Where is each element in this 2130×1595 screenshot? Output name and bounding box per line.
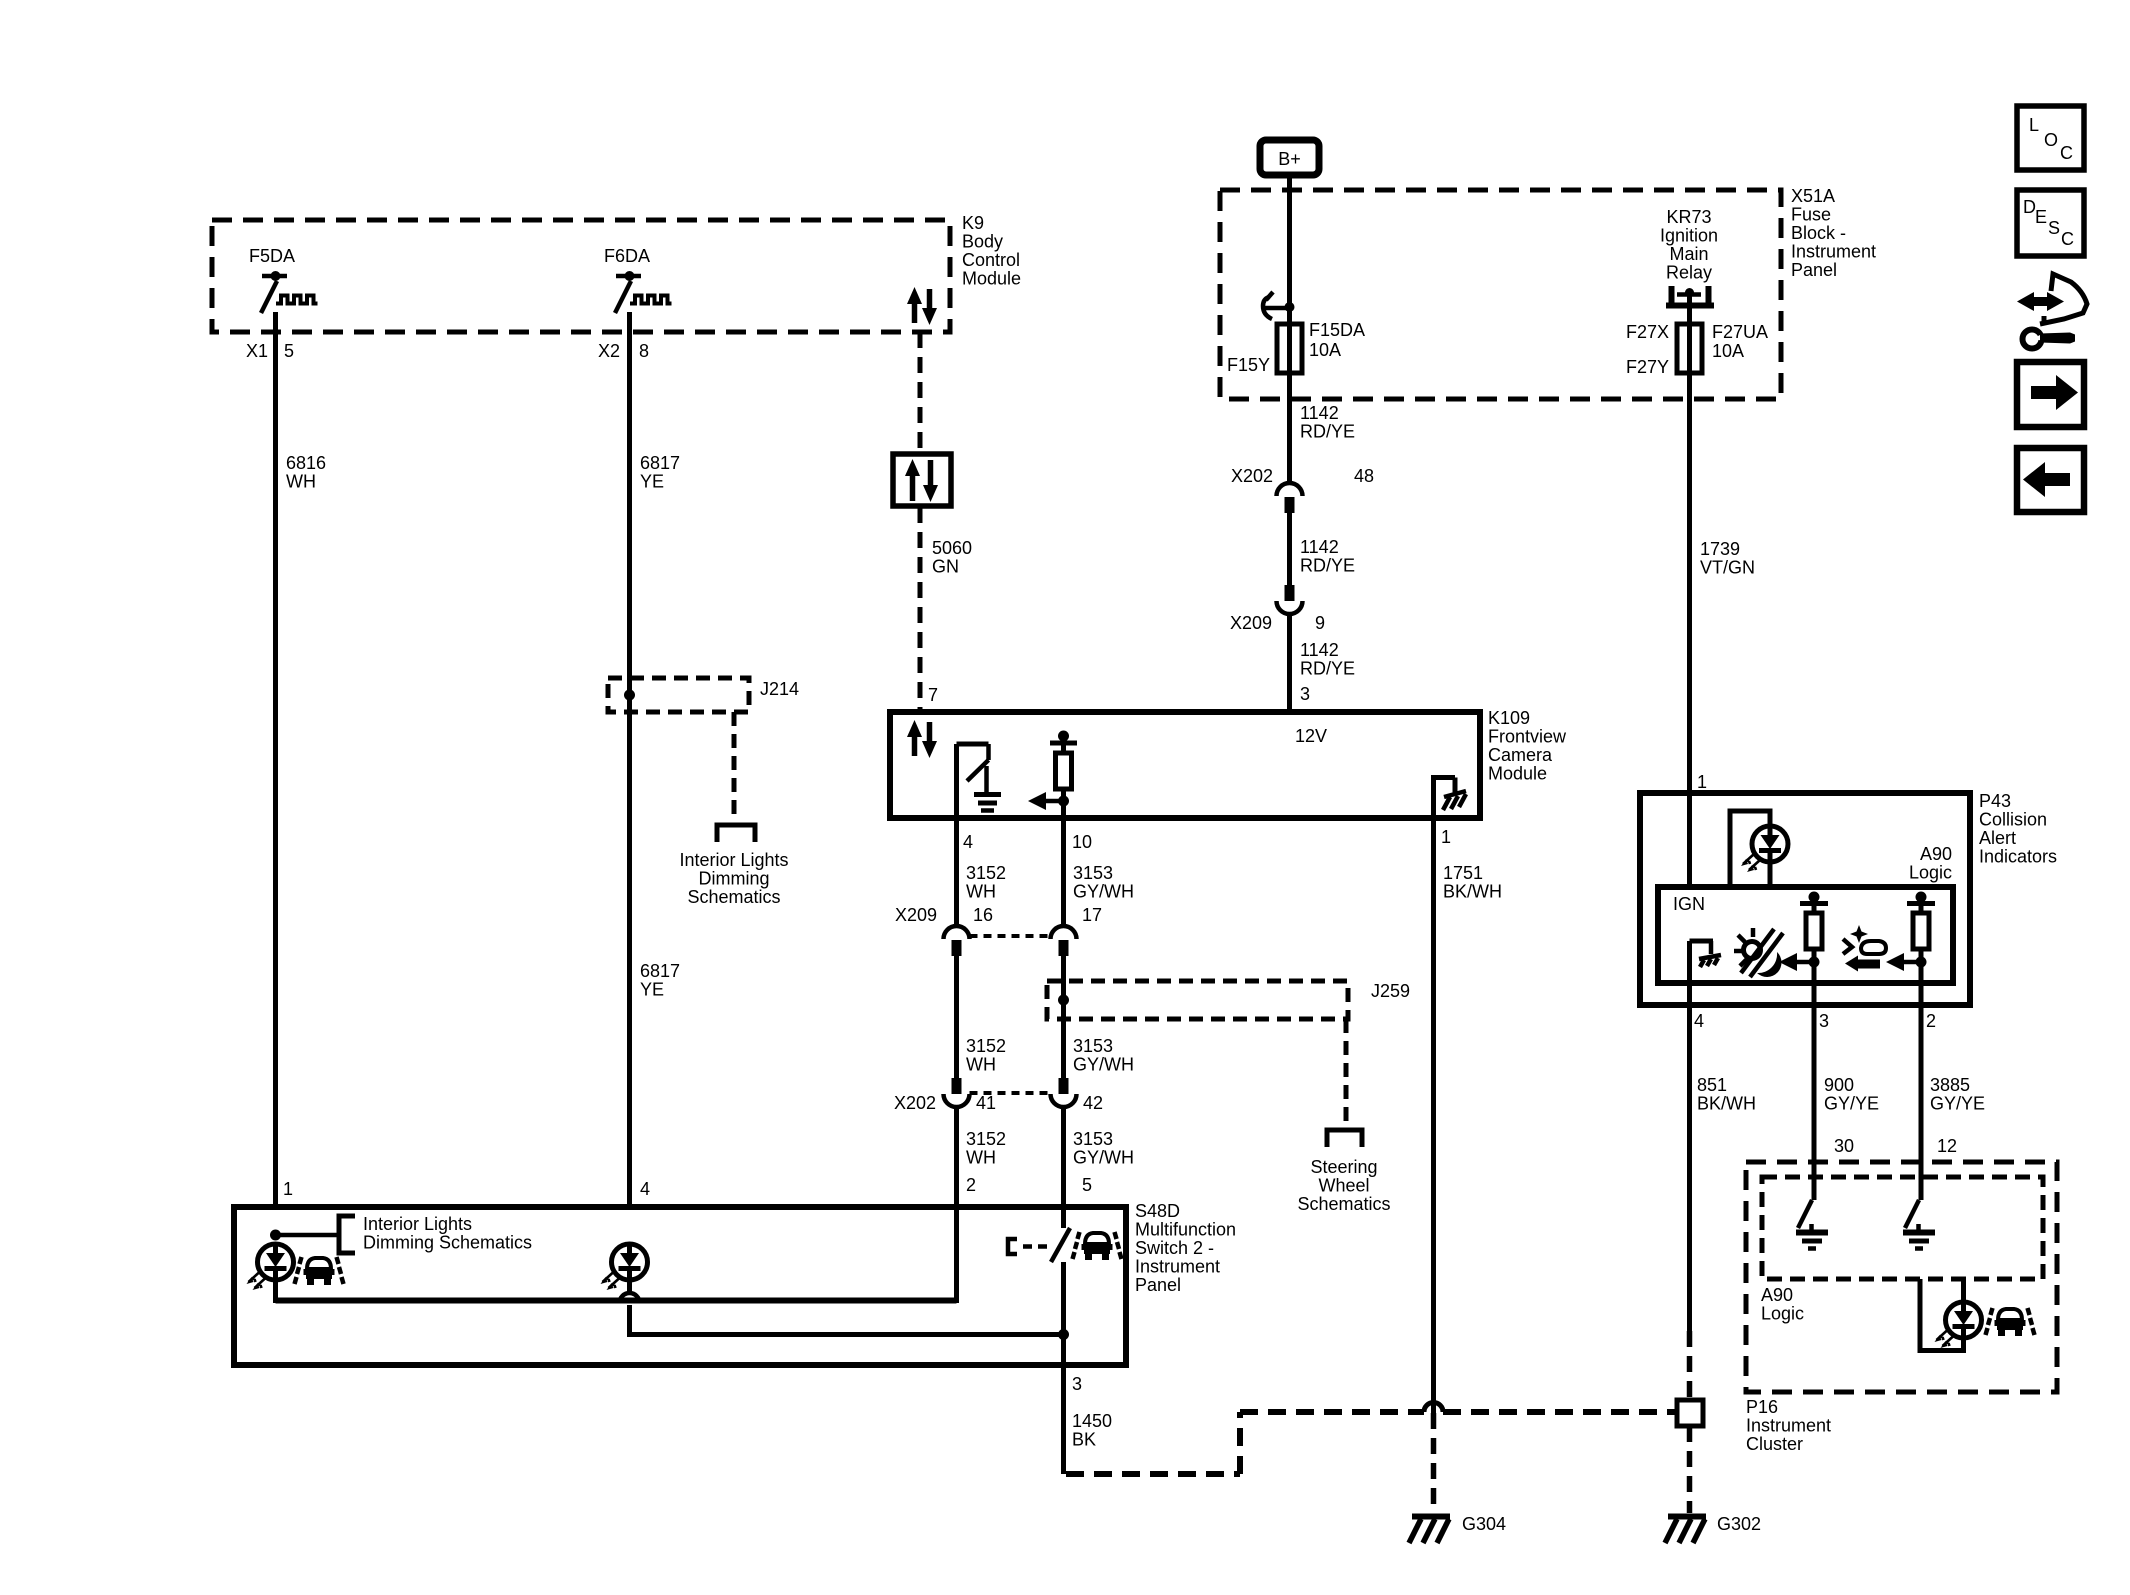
label X202 41 42 (894, 1093, 1103, 1113)
svg-text:RD/YE: RD/YE (1300, 422, 1355, 442)
svg-text:30: 30 (1834, 1136, 1854, 1156)
label A90 Logic (1909, 844, 1952, 883)
svg-text:1739: 1739 (1700, 539, 1740, 559)
label Steering Wheel Schematics (1297, 1157, 1390, 1214)
svg-text:YE: YE (640, 980, 664, 1000)
dashed branch from J259 (1344, 1019, 1349, 1127)
svg-text:1: 1 (1697, 772, 1707, 792)
back arrow button (2017, 448, 2084, 512)
wire 1739 VT/GN (F27 fuse to P43 pin1) (1687, 373, 1692, 793)
connector X209-16 (cap) (944, 926, 970, 956)
internal switch to ground (30) (1796, 1200, 1828, 1249)
dashed drop to G302 (1687, 1426, 1693, 1513)
svg-text:Instrument: Instrument (1135, 1257, 1220, 1277)
LED indicator 2 (601, 1244, 648, 1290)
svg-text:Block -: Block - (1791, 223, 1846, 243)
connector X202-48 (cap) (1277, 483, 1303, 513)
label 851 BK/WH (1697, 1075, 1756, 1114)
svg-text:Wheel: Wheel (1318, 1176, 1369, 1196)
pin labels 4 10 1 (963, 827, 1451, 852)
pin label X1 5 (246, 341, 294, 361)
junction dot at pin1 (270, 1230, 281, 1241)
svg-text:F15DA: F15DA (1309, 320, 1365, 340)
svg-text:Logic: Logic (1909, 863, 1952, 883)
svg-text:3152: 3152 (966, 863, 1006, 883)
svg-text:1142: 1142 (1300, 640, 1339, 660)
svg-text:A90: A90 (1920, 844, 1952, 864)
svg-text:A90: A90 (1761, 1285, 1793, 1305)
internal switch to ground (pin 4) (957, 744, 1002, 811)
svg-text:3885: 3885 (1930, 1075, 1970, 1095)
svg-text:RD/YE: RD/YE (1300, 556, 1355, 576)
battery feed B+ (1260, 140, 1319, 175)
forward arrow button (2017, 362, 2084, 427)
label 3153 GY/WH (1073, 1129, 1134, 1168)
svg-text:F27UA: F27UA (1712, 322, 1768, 342)
pin labels 2 5 (966, 1175, 1092, 1195)
internal resistor with output arrow (pin 2) (1886, 892, 1935, 1006)
wire 1142 RD/YE (X202 to X209) (1287, 513, 1292, 586)
svg-text:Panel: Panel (1135, 1275, 1181, 1295)
LED indicator 1 (247, 1244, 294, 1290)
label KR73 Ignition Main Relay (1660, 207, 1718, 283)
label 1450 BK (1072, 1411, 1112, 1450)
label 3153 GY/WH (1073, 863, 1134, 902)
svg-text:Alert: Alert (1979, 828, 2016, 848)
wire LED to logic box (1768, 862, 1773, 887)
svg-text:Interior Lights: Interior Lights (679, 850, 788, 870)
internal wire pin4 (954, 744, 959, 820)
svg-text:X202: X202 (1231, 466, 1273, 486)
svg-text:P43: P43 (1979, 791, 2011, 811)
wire 900 GY/YE (P43-3 to P16-30) (1812, 1005, 1817, 1200)
svg-text:X2: X2 (598, 341, 620, 361)
wire 1751 BK/WH (K109-1 to G304) (1431, 820, 1436, 1413)
svg-text:GY/WH: GY/WH (1073, 1055, 1134, 1075)
dashed branch from J214 (732, 712, 737, 820)
label 3152 WH (966, 1129, 1006, 1168)
label 1751 BK/WH (1443, 863, 1502, 902)
LED indicator P43 (1741, 826, 1788, 872)
svg-text:5: 5 (1082, 1175, 1092, 1195)
svg-text:4: 4 (1694, 1011, 1704, 1031)
label A90 Logic (P16) (1761, 1285, 1804, 1324)
junction dot in J259 (1058, 995, 1069, 1006)
svg-text:G302: G302 (1717, 1514, 1761, 1534)
wire 1142 RD/YE (fuse to X202-48) (1287, 373, 1292, 485)
svg-text:5: 5 (284, 341, 294, 361)
wire hop arc under LED2 (620, 1280, 640, 1337)
svg-text:GN: GN (932, 557, 959, 577)
svg-text:6817: 6817 (640, 961, 680, 981)
svg-text:GY/WH: GY/WH (1073, 882, 1134, 902)
wire 3152 WH (X202-41 to S48D-2) (954, 1107, 959, 1303)
label 6816 WH (286, 453, 326, 492)
svg-text:Schematics: Schematics (687, 887, 780, 907)
pin labels 1 4 (283, 1179, 650, 1199)
svg-text:WH: WH (966, 1148, 996, 1168)
label Interior Lights Dimming Schematics (363, 1214, 532, 1253)
internal link to dimming bracket (276, 1233, 339, 1238)
label 1142 RD/YE (1300, 403, 1355, 442)
module box P43 (1640, 793, 1970, 1005)
svg-text:S48D: S48D (1135, 1201, 1180, 1221)
svg-text:Frontview: Frontview (1488, 727, 1567, 747)
internal pull-up resistor with output arrow (pin 10) (1028, 731, 1077, 821)
svg-text:3152: 3152 (966, 1036, 1006, 1056)
internal wire LED1 to bus (273, 1280, 278, 1303)
svg-text:Module: Module (962, 269, 1021, 289)
svg-text:Main: Main (1669, 244, 1708, 264)
label K9 Body Control Module (962, 213, 1021, 289)
svg-text:YE: YE (640, 472, 664, 492)
svg-text:1450: 1450 (1072, 1411, 1112, 1431)
label 1739 VT/GN (1700, 539, 1755, 578)
svg-text:GY/YE: GY/YE (1824, 1094, 1879, 1114)
wire B+ to fuse F15DA (1287, 176, 1292, 373)
svg-text:GY/YE: GY/YE (1930, 1094, 1985, 1114)
svg-text:Schematics: Schematics (1297, 1194, 1390, 1214)
svg-text:VT/GN: VT/GN (1700, 558, 1755, 578)
svg-text:Dimming Schematics: Dimming Schematics (363, 1233, 532, 1253)
collision alert icon (1843, 925, 1886, 972)
svg-text:B+: B+ (1278, 149, 1301, 169)
label P16 Instrument Cluster (1746, 1397, 1831, 1454)
svg-text:Body: Body (962, 232, 1003, 252)
svg-text:851: 851 (1697, 1075, 1727, 1095)
svg-text:3153: 3153 (1073, 1129, 1113, 1149)
svg-text:F27X: F27X (1626, 322, 1669, 342)
dashed serial data wire 5060 GN (918, 332, 923, 455)
svg-text:BK/WH: BK/WH (1443, 882, 1502, 902)
relay contact feed at F15 (1263, 292, 1295, 319)
car icon 3 (1986, 1308, 2035, 1336)
svg-text:1: 1 (283, 1179, 293, 1199)
svg-text:7: 7 (928, 685, 938, 705)
module box K109 (890, 712, 1480, 818)
svg-text:Indicators: Indicators (1979, 847, 2057, 867)
svg-text:G304: G304 (1462, 1514, 1506, 1534)
svg-text:Fuse: Fuse (1791, 205, 1831, 225)
svg-text:Relay: Relay (1666, 263, 1712, 283)
wire 3152 WH (K109-4 to X209-16) (954, 820, 959, 927)
svg-text:Collision: Collision (1979, 810, 2047, 830)
label X209 16 17 (895, 905, 1102, 925)
label S48D Multifunction Switch 2 - Instrument Panel (1135, 1201, 1236, 1295)
svg-text:Dimming: Dimming (698, 869, 769, 889)
connector X202-41 (cup) (944, 1078, 970, 1107)
svg-text:WH: WH (966, 882, 996, 902)
svg-text:Instrument: Instrument (1746, 1416, 1831, 1436)
internal resistor with output arrow (pin 3) (1779, 892, 1828, 1006)
svg-text:10: 10 (1072, 832, 1092, 852)
svg-text:6817: 6817 (640, 453, 680, 473)
dimmer (sun) icon (1734, 928, 1783, 977)
label X202 48 (1231, 466, 1374, 486)
svg-text:1142: 1142 (1300, 403, 1339, 423)
wire 3885 GY/YE (P43-2 to P16-12) (1919, 1005, 1924, 1200)
driver F5DA symbol (261, 271, 318, 313)
driver F6DA symbol (615, 271, 672, 313)
ground G302 (1665, 1517, 1706, 1544)
connector X209-9 (cup) (1277, 585, 1303, 614)
svg-text:4: 4 (963, 832, 973, 852)
svg-text:Module: Module (1488, 764, 1547, 784)
internal chassis ground in A90 (1690, 941, 1722, 967)
svg-text:Logic: Logic (1761, 1304, 1804, 1324)
label K109 Frontview Camera Module (1488, 708, 1567, 784)
module box S48D (234, 1207, 1126, 1365)
svg-text:IGN: IGN (1673, 894, 1705, 914)
wire 6816 WH (X1-5 to S48D-1) (273, 312, 278, 1207)
logic box A90 (inner) (1658, 887, 1953, 983)
internal bus wire (LED1/LED2 to pin2) (276, 1298, 957, 1304)
svg-text:3153: 3153 (1073, 1036, 1113, 1056)
svg-text:8: 8 (639, 341, 649, 361)
label X209 9 (1230, 613, 1325, 633)
label 1142 RD/YE (1300, 640, 1355, 679)
svg-text:Instrument: Instrument (1791, 242, 1876, 262)
svg-text:41: 41 (976, 1093, 996, 1113)
label 3153 GY/WH (1073, 1036, 1134, 1075)
label 900 GY/YE (1824, 1075, 1879, 1114)
label 6817 YE (lower) (640, 961, 680, 1000)
svg-text:17: 17 (1082, 905, 1102, 925)
serial data arrows in K109 (907, 720, 937, 758)
svg-text:F27Y: F27Y (1626, 357, 1669, 377)
off-page bracket Steering Wheel (1327, 1130, 1362, 1147)
svg-text:C: C (2060, 143, 2073, 163)
svg-text:J214: J214 (760, 679, 799, 699)
svg-text:WH: WH (966, 1055, 996, 1075)
LED branch loop in P43 (1730, 811, 1770, 887)
svg-text:X202: X202 (894, 1093, 936, 1113)
connector X202-42 (cup) (1051, 1078, 1077, 1107)
junction dot in J214 (624, 690, 635, 701)
junction dot at switch output (1058, 1329, 1069, 1340)
svg-text:WH: WH (286, 472, 316, 492)
svg-text:Cluster: Cluster (1746, 1434, 1803, 1454)
svg-text:O: O (2044, 130, 2058, 150)
svg-text:3: 3 (1819, 1011, 1829, 1031)
svg-text:48: 48 (1354, 466, 1374, 486)
svg-text:S: S (2048, 218, 2060, 238)
pin labels 30 12 (1834, 1136, 1957, 1156)
dashed ground path from 1450 BK (1066, 1412, 1676, 1474)
splice J214 (dashed box) (608, 678, 749, 712)
pin label X2 8 (598, 341, 649, 361)
svg-text:Interior Lights: Interior Lights (363, 1214, 472, 1234)
svg-text:F15Y: F15Y (1227, 355, 1270, 375)
wire 3152 WH (X209-16 to X202-41) (954, 956, 959, 1079)
connector X209-17 (cap) (1051, 926, 1077, 956)
fuse block X51A (dashed box) (1220, 190, 1781, 399)
svg-text:Switch 2 -: Switch 2 - (1135, 1238, 1214, 1258)
serial data arrows in K9 (907, 287, 937, 325)
svg-text:2: 2 (966, 1175, 976, 1195)
internal switch to ground (12) (1903, 1200, 1935, 1249)
splice J259 (dashed box) (1047, 981, 1348, 1019)
svg-text:K109: K109 (1488, 708, 1530, 728)
svg-text:10A: 10A (1712, 341, 1744, 361)
car icon 1 (295, 1257, 344, 1285)
svg-text:9: 9 (1315, 613, 1325, 633)
crossover hop over wire 1751 (1424, 1403, 1443, 1413)
label F15DA 10A (1309, 320, 1365, 360)
label P43 Collision Alert Indicators (1979, 791, 2057, 867)
car icon 2 (1073, 1232, 1122, 1260)
svg-text:K9: K9 (962, 213, 984, 233)
svg-text:1: 1 (1441, 827, 1451, 847)
fuse F27UA (1677, 324, 1702, 373)
wire 6817 YE (X2-8 to S48D-4) (627, 312, 632, 1207)
connector square at P16 feed (1677, 1400, 1703, 1426)
label 5060 GN (932, 538, 972, 577)
label 6817 YE (640, 453, 680, 492)
svg-text:Ignition: Ignition (1660, 226, 1718, 246)
svg-text:Multifunction: Multifunction (1135, 1220, 1236, 1240)
svg-text:Control: Control (962, 250, 1020, 270)
LOC button (2017, 106, 2084, 170)
svg-text:12: 12 (1937, 1136, 1957, 1156)
wire 3153 GY/WH (K109-10 to X209-17) (1061, 820, 1066, 927)
svg-text:Camera: Camera (1488, 745, 1553, 765)
diagnostic icon (arrows wrench) (2017, 274, 2087, 349)
fuse F15DA (1277, 324, 1302, 373)
svg-text:P16: P16 (1746, 1397, 1778, 1417)
svg-text:4: 4 (640, 1179, 650, 1199)
relay KR73 contact symbol (1666, 286, 1714, 306)
svg-text:L: L (2029, 115, 2039, 135)
svg-text:2: 2 (1926, 1011, 1936, 1031)
svg-text:42: 42 (1083, 1093, 1103, 1113)
wire 3153 GY/WH (X209-17 to X202-42) (1061, 956, 1066, 1079)
svg-text:16: 16 (973, 905, 993, 925)
bracket Interior Lights Dimming (339, 1216, 355, 1253)
svg-text:3153: 3153 (1073, 863, 1113, 883)
wire KR73 to fuse F27UA (1687, 292, 1692, 373)
dashed continuation of 851 (1687, 1331, 1693, 1400)
svg-text:J259: J259 (1371, 981, 1410, 1001)
labels F27X F27UA 10A F27Y (1626, 322, 1768, 377)
internal chassis ground (pin 1) (1431, 778, 1466, 821)
DESC button (2017, 190, 2084, 256)
label 3152 WH (966, 863, 1006, 902)
svg-text:900: 900 (1824, 1075, 1854, 1095)
wire 1450 BK (1061, 1365, 1066, 1474)
svg-text:6816: 6816 (286, 453, 326, 473)
svg-text:3: 3 (1300, 684, 1310, 704)
dashed drop to G304 (1431, 1413, 1437, 1513)
svg-text:1142: 1142 (1300, 537, 1339, 557)
svg-text:X209: X209 (1230, 613, 1272, 633)
label 3885 GY/YE (1930, 1075, 1985, 1114)
svg-text:3152: 3152 (966, 1129, 1006, 1149)
svg-text:3: 3 (1072, 1374, 1082, 1394)
data link symbol box (893, 454, 951, 506)
svg-text:GY/WH: GY/WH (1073, 1148, 1134, 1168)
internal wire switch to pin3 (1061, 1262, 1066, 1365)
svg-text:Panel: Panel (1791, 260, 1837, 280)
pin labels 4 3 2 (1694, 1011, 1936, 1031)
ground G304 (1409, 1517, 1450, 1544)
internal switch blade (1051, 1228, 1070, 1262)
internal bus wire 2 (LED2 to switch output) (630, 1332, 1064, 1337)
svg-text:X1: X1 (246, 341, 268, 361)
svg-text:10A: 10A (1309, 340, 1341, 360)
svg-text:X51A: X51A (1791, 186, 1835, 206)
svg-text:Steering: Steering (1310, 1157, 1377, 1177)
svg-text:12V: 12V (1295, 726, 1327, 746)
LED indicator P16 (1935, 1302, 1982, 1348)
wire pin1 through P43 to pin4 (1687, 793, 1692, 890)
svg-text:KR73: KR73 (1666, 207, 1711, 227)
svg-text:C: C (2061, 229, 2074, 249)
svg-text:X209: X209 (895, 905, 937, 925)
wire 3153 GY/WH (X202-42 to S48D-5) (1061, 1107, 1066, 1228)
svg-text:1751: 1751 (1443, 863, 1483, 883)
wire to LED in P16 (1961, 1279, 1966, 1303)
label Interior Lights Dimming Schematics (679, 850, 788, 907)
svg-text:BK: BK (1072, 1430, 1096, 1450)
module box P16 (dashed) (1746, 1162, 2057, 1392)
svg-text:F6DA: F6DA (604, 246, 650, 266)
label X51A Fuse Block - Instrument Panel (1791, 186, 1876, 280)
svg-text:BK/WH: BK/WH (1697, 1094, 1756, 1114)
LED branch loop in P16 (1920, 1279, 1964, 1351)
mechanical linkage bracket and dashes (1008, 1239, 1047, 1254)
logic box A90 in P16 (dashed) (1762, 1177, 2043, 1279)
wire 1142 RD/YE (X209 to K109 pin3) (1287, 614, 1292, 711)
svg-text:E: E (2035, 207, 2047, 227)
connector body dash X209 (970, 934, 1051, 938)
svg-text:5060: 5060 (932, 538, 972, 558)
off-page bracket Interior Lights Dimming (717, 825, 755, 842)
module box K9 (dashed) (212, 220, 950, 332)
connector body dash X202 (970, 1091, 1051, 1095)
wire 851 BK/WH (P43-4 to G302) (1687, 1005, 1692, 1331)
svg-text:F5DA: F5DA (249, 246, 295, 266)
label 3152 WH (966, 1036, 1006, 1075)
label 1142 RD/YE (1300, 537, 1355, 576)
svg-text:RD/YE: RD/YE (1300, 659, 1355, 679)
